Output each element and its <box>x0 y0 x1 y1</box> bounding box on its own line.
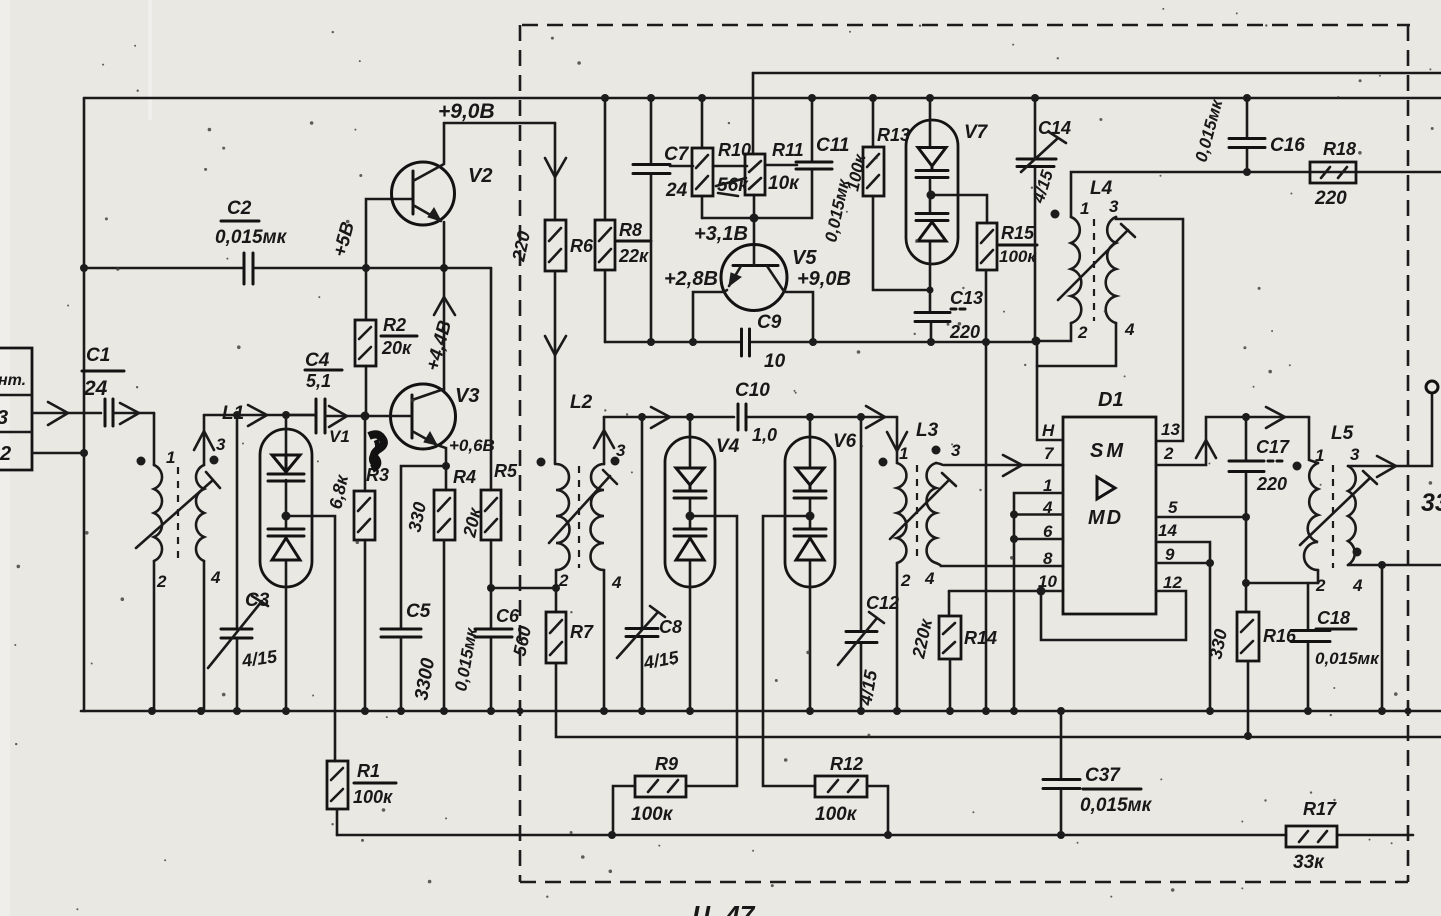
arrow on signal line before L3 <box>866 406 885 428</box>
node R2 top / V2 base on C2 line <box>362 264 370 272</box>
node V3 base junction <box>361 412 370 421</box>
capacitor C8 variable <box>617 417 682 711</box>
resistor R6 with feed arrows <box>508 123 594 464</box>
resistor R8 <box>595 98 651 342</box>
node V7 centre tap <box>927 191 936 200</box>
inductor L3 <box>879 420 962 590</box>
wire V4 tap to R9 <box>686 516 737 786</box>
resistor R3 <box>325 416 389 711</box>
resistor R16 <box>1205 583 1297 736</box>
capacitor C5 <box>381 601 439 711</box>
wire V1 bottom to ground <box>285 587 288 711</box>
wire L5 pin2 line <box>1246 582 1318 585</box>
wire emitter junction to R4 <box>445 466 448 490</box>
arrow up on V3 collector <box>434 297 455 315</box>
capacitor C37 <box>1043 711 1153 835</box>
transistor V5 <box>693 218 817 342</box>
wire ground rail y=711 <box>81 710 1441 713</box>
wire L1 pin3 riser <box>203 415 206 465</box>
capacitor C14 trimmer <box>1017 98 1071 341</box>
input connector box Ант <box>0 348 32 470</box>
wire D1 pin10 line to R14 <box>949 590 1063 593</box>
wire vertical joining y73 line to R11 column <box>752 73 755 154</box>
inductor L4 <box>1051 178 1136 342</box>
wire left vertical bus x=84 <box>83 98 86 711</box>
node V3 emitter junction <box>442 462 450 470</box>
node V4 centre tap <box>686 512 695 521</box>
inductor L2 <box>537 392 627 592</box>
capacitor C16 <box>1192 96 1306 172</box>
wire emitter junction to C5 <box>401 466 446 629</box>
wire pins 1/4/6 common column <box>1014 493 1063 711</box>
wire L3 pin4 to D1 pin8 <box>936 563 1063 566</box>
capacitor C9 in series on mid rail <box>742 312 786 372</box>
node V1 top on secondary line <box>282 411 290 419</box>
resistor R1 <box>327 761 396 835</box>
wire L5 pin3 to output terminal <box>1348 393 1432 466</box>
capacitor C2 <box>215 198 288 284</box>
wire H column down to D1 pin H <box>1037 341 1063 440</box>
node V2 emitter on C2 line <box>440 264 448 272</box>
wire V7 tap to R15 <box>931 195 987 223</box>
capacitor C12 variable <box>838 417 899 711</box>
varicap V1 <box>260 415 350 587</box>
wire L1 pin4 to ground <box>203 561 206 711</box>
node R13 joins V7 bottom <box>927 287 934 294</box>
arrow up on pin2 loop <box>1196 440 1216 458</box>
capacitor C11 <box>796 98 853 244</box>
resistor R5 <box>459 268 518 588</box>
dashed enclosure border of IF unit <box>520 25 1410 882</box>
inductor L1 <box>136 403 244 591</box>
capacitor C17 <box>1229 417 1290 517</box>
capacitor C6 <box>451 588 520 711</box>
arrow on output wire <box>1377 456 1396 477</box>
wire L3 pin2 to ground <box>896 563 899 711</box>
inductor L5 <box>1293 417 1378 595</box>
capacitor C7 <box>633 98 690 342</box>
node C14/L4.2/H junction <box>1032 337 1041 346</box>
wire AFC line y=737 <box>556 711 1441 737</box>
transistor V2 <box>392 123 493 268</box>
node L2 pin2 junction <box>552 584 560 592</box>
transistor V3 <box>365 384 479 466</box>
arrow up on L2 pin3 <box>594 430 614 448</box>
wire L1 pin2 to ground <box>153 561 156 711</box>
node base junction <box>750 214 759 223</box>
wire AGC bottom line y=835 <box>337 834 1413 837</box>
wire V3 collector riser <box>443 268 446 392</box>
resistor R12 <box>815 754 888 835</box>
arrow after C4 <box>329 406 347 427</box>
wire V4 bottom to ground <box>689 587 692 711</box>
capacitor C18 <box>1291 583 1380 711</box>
wire L5 pin4 drop to ground <box>1381 565 1384 711</box>
wire L2 pin4 to ground <box>603 570 606 711</box>
node junction C2 line / left bus <box>80 264 88 272</box>
wire L4 pin3 to D1 pin13 <box>1116 217 1183 441</box>
resistor R15 <box>977 223 1037 342</box>
arrow on signal line <box>651 407 670 428</box>
node C8 tap <box>638 413 646 421</box>
wire top supply rail y=98 <box>84 97 1441 100</box>
resistor R13 <box>843 98 930 290</box>
wire C1 to L1 pin1 <box>153 413 156 465</box>
wire L2 pin3 riser to signal line <box>603 417 606 464</box>
arrow after C1 <box>120 403 139 424</box>
wire R15 column to ground <box>985 342 988 711</box>
node R5 bottom junction <box>487 584 495 592</box>
terminal circle <box>1426 381 1438 393</box>
wire top AGC line y=73 <box>753 72 1441 75</box>
wire C17/pin5 node down to L5 pin2 line <box>1245 517 1248 583</box>
wire V6 bottom to ground <box>809 587 812 711</box>
wire pin9 to ground <box>1156 563 1210 711</box>
wire input line pin3 to C1 <box>32 412 101 415</box>
varicap V4 <box>665 417 740 587</box>
arrow on input line <box>48 402 68 425</box>
arrow on secondary line <box>248 405 267 426</box>
wire L4 pin2 to C14 node <box>1036 323 1071 341</box>
resistor R14 <box>908 591 997 711</box>
resistor R17 <box>1286 799 1337 873</box>
wire V2 base drop <box>366 199 412 268</box>
node C3 tap <box>233 411 241 419</box>
node C17 top <box>1242 413 1250 421</box>
wire C7 top to R10/R11 sides <box>670 165 797 166</box>
varicap V6 <box>785 417 857 587</box>
capacitor C13 <box>915 264 983 342</box>
resistor R10 <box>692 98 751 218</box>
resistor R7 <box>509 570 594 711</box>
wire pin2 loop to C17 line <box>1156 417 1309 465</box>
node V6 centre tap <box>806 512 815 521</box>
wire C2 line y=268 <box>84 267 491 270</box>
wire V1 tap to R1 <box>286 516 335 761</box>
wire pin5 to C17 bottom <box>1156 516 1246 519</box>
node C12 tap <box>857 413 865 421</box>
capacitor C10 <box>735 380 777 445</box>
wire input pin2 line <box>32 452 84 455</box>
wire pin12 loop under D1 <box>1041 591 1186 640</box>
wire L3 pin1 riser <box>896 417 899 463</box>
resistor R18 <box>1310 139 1356 209</box>
arrow up on pin3 riser <box>194 431 214 450</box>
resistor R4 <box>404 467 476 711</box>
wire V2 collector supply line y=123 <box>444 122 555 125</box>
wire L4 pin4 to H column <box>1037 323 1116 366</box>
arrow right on C17 line <box>1266 407 1285 428</box>
resistor R11 <box>745 140 804 218</box>
node pin2 line joins left bus <box>80 449 88 457</box>
capacitor C4 <box>286 350 365 433</box>
wire secondary line y=415 <box>204 414 315 417</box>
wire mid rail y=342 (emitter/collector bus) <box>605 341 1037 342</box>
capacitor C1 <box>82 345 154 426</box>
varicap V7 <box>906 98 989 264</box>
resistor R9 <box>613 754 686 835</box>
arrow down on L3 pin1 <box>887 432 907 451</box>
wire IF signal line y=417 <box>604 416 897 419</box>
wire L4 pin1 to C16/R18 line y=172 <box>1071 172 1441 217</box>
wire L5 pin4 line to edge <box>1348 564 1441 567</box>
wire V6 tap to R12 <box>763 516 815 786</box>
resistor R2 <box>355 268 417 416</box>
wire R5/C6 to L2 pin2 y=588 <box>491 587 556 590</box>
wire pin14 down to pin9 <box>1156 542 1210 563</box>
wire L5 pin2 to C18 <box>1317 570 1320 583</box>
arrow into pin7 <box>1003 455 1022 476</box>
node V1 centre tap <box>282 512 291 521</box>
wire L3 pin3 to D1 pin7 <box>936 463 1063 466</box>
node pin10/12 junction <box>1037 587 1046 596</box>
capacitor C3 variable <box>208 415 279 711</box>
wire R10/R11 base bus y=218 <box>702 217 812 220</box>
IC D1 <box>1038 389 1182 614</box>
